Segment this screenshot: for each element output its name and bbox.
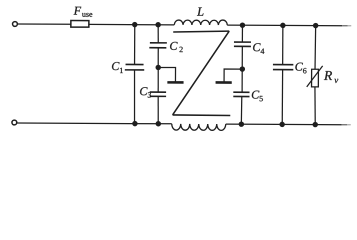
capacitor C5 — [233, 92, 249, 124]
label C3 — [140, 87, 151, 97]
ground left — [167, 81, 183, 84]
node junction on C4-C5 branch — [240, 67, 244, 71]
inductor bottom winding — [172, 124, 226, 131]
node junction top of C4 — [240, 23, 244, 27]
capacitor C2 — [149, 25, 167, 92]
node junction bottom of C5 — [239, 122, 243, 126]
capacitor C3 — [150, 92, 167, 124]
node junction bottom of C6 — [280, 122, 284, 126]
wire top rail: inductor to right edge — [227, 24, 342, 27]
wire top rail: fuse to inductor — [89, 23, 174, 25]
terminal input top-left — [13, 22, 18, 27]
wire bottom rail fading right end — [342, 124, 347, 126]
label F_use — [74, 7, 93, 17]
wire top rail fading right end — [342, 25, 347, 27]
wire ground tap right — [224, 69, 242, 82]
label C6 — [295, 63, 306, 74]
node junction bottom of C1 — [133, 122, 137, 126]
node junction on C2-C3 branch — [156, 65, 160, 69]
wire top rail: terminal to fuse — [17, 23, 70, 25]
label C1 — [112, 62, 123, 73]
node junction top of Rv — [314, 23, 318, 27]
terminal input bottom-left — [12, 120, 17, 125]
common-mode choke core Z symbol — [173, 31, 231, 116]
label L — [197, 7, 204, 15]
inductor L top winding — [174, 20, 227, 25]
label Rv — [324, 71, 338, 83]
node junction bottom of C3 — [156, 122, 160, 126]
fuse F_use — [71, 20, 89, 27]
wire bottom rail: terminal to bottom winding — [17, 122, 172, 125]
label C4 — [253, 43, 264, 54]
node junction top of C1 — [133, 23, 137, 27]
wire ground tap left — [158, 67, 175, 81]
node junction bottom of Rv — [313, 122, 317, 126]
label C2 — [170, 42, 183, 52]
node junction top of C2 — [156, 23, 160, 27]
wire bottom rail: winding to right edge — [226, 123, 342, 126]
ground right — [216, 81, 232, 84]
capacitor C1 — [125, 25, 145, 124]
varistor Rv — [307, 26, 323, 125]
capacitor C4 — [234, 25, 251, 92]
capacitor C6 — [273, 25, 294, 124]
node junction top of C6 — [281, 23, 285, 27]
label C5 — [252, 91, 263, 102]
